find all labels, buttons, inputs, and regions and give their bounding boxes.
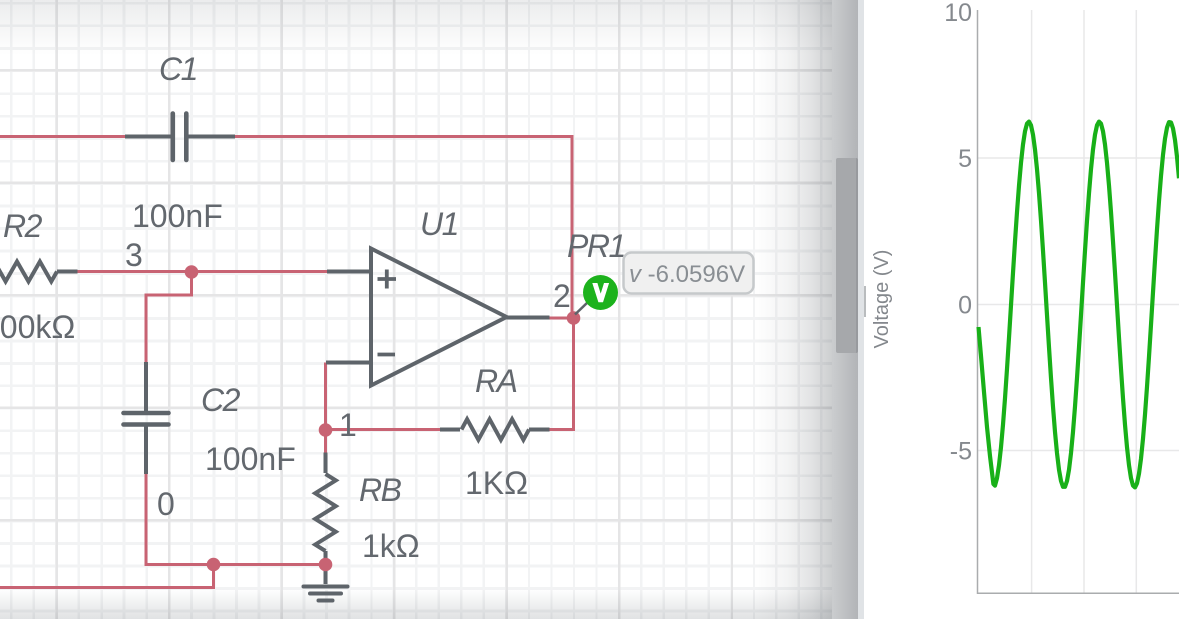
probe PR1 green head bbox=[583, 275, 618, 310]
label U1 bbox=[420, 206, 458, 242]
op-amp U1 output lead bbox=[505, 316, 550, 320]
wire: C2 bottom to ground rail bbox=[146, 474, 214, 565]
svg-text:C2: C2 bbox=[201, 382, 241, 418]
label PR1 bbox=[567, 228, 625, 264]
wire: node 1 up to op-amp inverting input bbox=[324, 363, 327, 431]
wire: ground rail to RB bottom bbox=[214, 563, 326, 566]
plot vertical gridlines bbox=[1032, 10, 1137, 593]
svg-text:R2: R2 bbox=[3, 208, 43, 244]
value label 1kΩ (RB) bbox=[362, 528, 420, 564]
wire: jog from node 3 down to C2 top bbox=[146, 272, 192, 362]
label C1 bbox=[159, 51, 197, 87]
resistor RA bbox=[440, 419, 550, 440]
wire: net 1 from node to RA left bbox=[326, 428, 441, 431]
op-amp U1 minus symbol bbox=[378, 353, 396, 357]
voltage waveform trace bbox=[979, 122, 1179, 488]
wire: net 3 from R2 to op-amp + input bbox=[78, 270, 328, 273]
svg-text:0: 0 bbox=[958, 292, 972, 320]
plot horizontal gridlines bbox=[978, 158, 1179, 451]
label C2 bbox=[201, 382, 241, 418]
svg-text:10: 10 bbox=[944, 0, 972, 27]
wire: net to C1 left, from off-canvas left edge bbox=[0, 135, 125, 138]
node dot at RB bottom bbox=[319, 558, 333, 572]
op-amp U1 plus symbol bbox=[378, 270, 397, 289]
probe PR1 value tooltip bbox=[624, 253, 754, 294]
svg-text:C1: C1 bbox=[159, 51, 197, 87]
wire: ground rail to off-canvas left bbox=[0, 565, 214, 588]
ground symbol bbox=[304, 565, 348, 601]
svg-text:1: 1 bbox=[339, 407, 357, 443]
node label 3 bbox=[125, 237, 143, 273]
value label 100nF (C2) bbox=[205, 441, 296, 477]
op-amp U1 non-inverting input lead bbox=[327, 270, 371, 274]
node label 2 bbox=[553, 278, 571, 314]
value label 100kΩ (R2, cut at left edge) bbox=[0, 309, 75, 345]
svg-text:v -6.0596V: v -6.0596V bbox=[629, 261, 745, 288]
wire: output lead to node 2 bbox=[550, 317, 574, 320]
svg-text:RB: RB bbox=[359, 472, 402, 508]
svg-text:100kΩ: 100kΩ bbox=[0, 309, 75, 345]
plot axes bbox=[978, 10, 1179, 593]
op-amp U1 inverting input lead bbox=[326, 361, 371, 365]
svg-text:PR1: PR1 bbox=[567, 228, 625, 264]
node 1 junction dot bbox=[319, 423, 333, 437]
svg-text:3: 3 bbox=[125, 237, 143, 273]
svg-text:-5: -5 bbox=[950, 438, 972, 466]
capacitor C1 bbox=[125, 114, 235, 161]
node 2 junction dot bbox=[567, 311, 581, 325]
y-axis tick labels bbox=[944, 0, 972, 466]
svg-text:5: 5 bbox=[958, 145, 972, 173]
svg-text:2: 2 bbox=[553, 278, 571, 314]
svg-text:100nF: 100nF bbox=[132, 198, 223, 234]
svg-text:RA: RA bbox=[475, 363, 517, 399]
node 3 junction dot bbox=[185, 265, 199, 279]
label RB bbox=[359, 472, 402, 508]
wire: node 1 to RB top bbox=[324, 430, 327, 453]
wire: output node down to RA corner bbox=[550, 318, 574, 430]
wire: C1 right to feedback corner bbox=[235, 137, 572, 319]
value label 100nF (C1) bbox=[132, 198, 223, 234]
svg-text:1KΩ: 1KΩ bbox=[465, 465, 528, 501]
resistor RB bbox=[315, 453, 336, 565]
svg-text:U1: U1 bbox=[420, 206, 458, 242]
probe PR1 pointer bbox=[575, 301, 589, 315]
node label 0 bbox=[157, 486, 175, 522]
label R2 bbox=[3, 208, 43, 244]
svg-text:1kΩ: 1kΩ bbox=[362, 528, 420, 564]
svg-text:0: 0 bbox=[157, 486, 175, 522]
resistor R2 (cut at left edge) bbox=[0, 262, 78, 282]
label RA bbox=[475, 363, 517, 399]
op-amp U1 triangle body bbox=[371, 249, 507, 386]
junction dot on ground rail bbox=[207, 558, 221, 572]
value label 1KΩ (RA) bbox=[465, 465, 528, 501]
capacitor C2 bbox=[124, 362, 169, 474]
node label 1 bbox=[339, 407, 357, 443]
svg-text:100nF: 100nF bbox=[205, 441, 296, 477]
